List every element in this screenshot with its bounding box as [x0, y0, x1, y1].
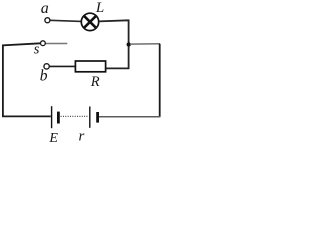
svg-text:b: b [40, 68, 48, 85]
svg-text:r: r [79, 128, 85, 143]
svg-text:a: a [41, 0, 49, 17]
svg-text:s: s [34, 41, 40, 57]
svg-text:L: L [95, 0, 104, 16]
svg-text:R: R [90, 74, 100, 90]
svg-text:E: E [48, 131, 58, 143]
